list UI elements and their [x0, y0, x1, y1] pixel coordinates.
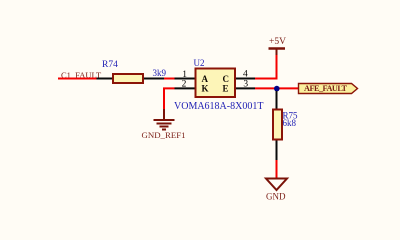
svg-text:+5V: +5V	[269, 37, 286, 47]
wire resistor R74 left lead (black)	[97, 78, 114, 80]
svg-text:GND_REF1: GND_REF1	[142, 130, 186, 140]
svg-text:1: 1	[182, 70, 187, 80]
svg-text:R74: R74	[102, 60, 118, 70]
svg-text:A: A	[202, 74, 209, 84]
wire R75 to GND (red)	[276, 160, 278, 178]
power +5V symbol	[269, 49, 286, 56]
svg-text:K: K	[202, 84, 209, 94]
svg-text:C: C	[223, 74, 230, 84]
op-amp U2 optocoupler body	[196, 69, 236, 98]
wire C1_FAULT to R74 (red segment)	[58, 78, 97, 80]
svg-text:U2: U2	[194, 58, 205, 68]
svg-text:6k8: 6k8	[283, 118, 297, 128]
svg-text:4: 4	[243, 70, 248, 80]
ground GND_REF1 symbol	[154, 109, 175, 130]
pin 2 of U2 (black)	[175, 87, 196, 89]
wire R75 bottom lead (black)	[276, 141, 278, 161]
wire junction to R75 top lead (black)	[276, 91, 278, 110]
svg-text:E: E	[223, 84, 229, 94]
resistor R75	[273, 110, 282, 140]
pin 4 of U2 (black)	[236, 78, 255, 80]
wire resistor R74 right lead (black)	[144, 78, 164, 80]
svg-text:AFE_FAULT: AFE_FAULT	[304, 84, 348, 93]
svg-text:3: 3	[243, 80, 248, 90]
svg-text:2: 2	[182, 79, 187, 89]
resistor R74	[113, 74, 143, 83]
ground GND symbol (triangle)	[266, 179, 287, 191]
port AFE_FAULT flag	[299, 84, 358, 94]
wire U2 pin4 to +5V rail (red)	[255, 54, 277, 79]
wire U2 pin3 to AFE_FAULT port (red)	[255, 87, 298, 89]
svg-text:VOMA618A-8X001T: VOMA618A-8X001T	[174, 101, 263, 112]
wire U2 pin2 to GND_REF1 (red)	[164, 88, 175, 110]
pin 3 of U2 (black)	[236, 87, 255, 89]
pin 1 of U2 (black)	[175, 78, 196, 80]
svg-text:GND: GND	[266, 192, 286, 202]
wire R74 to U2 pin1 (red segment)	[164, 78, 175, 80]
junction dot	[274, 86, 280, 92]
svg-text:3k9: 3k9	[153, 68, 167, 78]
